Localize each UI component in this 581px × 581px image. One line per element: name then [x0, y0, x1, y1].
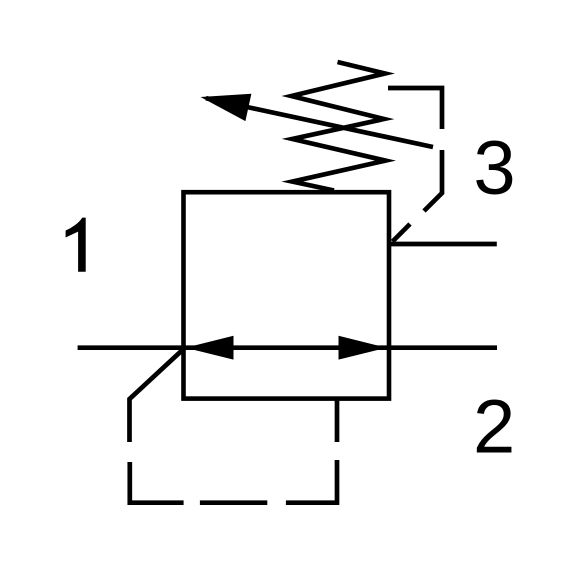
valve body (main square): [184, 192, 390, 398]
port 1 line (left): [78, 345, 184, 350]
label 1: [66, 218, 86, 272]
svg-text:3: 3: [473, 126, 515, 211]
pilot line dash 1 (horizontal + corner down): [388, 88, 442, 129]
flow arrow head left: [186, 336, 234, 360]
flow path arrow shaft inside body: [184, 345, 390, 350]
drain left vertical dash 2 + bottom corner + bottom dash 1: [130, 462, 184, 503]
adjustment arrow head: [201, 94, 252, 121]
drain diagonal (solid from port 1 junction) + first dash of left vertical: [130, 349, 184, 442]
port 2 line (right): [389, 345, 497, 350]
pilot line dash 2 (vertical + bend to diagonal): [424, 150, 442, 211]
svg-text:2: 2: [473, 385, 515, 470]
drain bottom dash 3 + right corner + right vertical dash 1: [286, 460, 337, 503]
flow arrow head right: [339, 336, 387, 360]
spring (zigzag, top): [291, 62, 385, 191]
drain bottom dash 2: [200, 500, 267, 505]
pilot line dash 3 (diagonal to port 3 junction): [393, 224, 411, 242]
drain right vertical dash 2 (to box bottom): [335, 400, 340, 442]
port 3 line (upper right): [389, 242, 497, 247]
adjustment arrow shaft (diagonal through spring): [206, 98, 433, 147]
